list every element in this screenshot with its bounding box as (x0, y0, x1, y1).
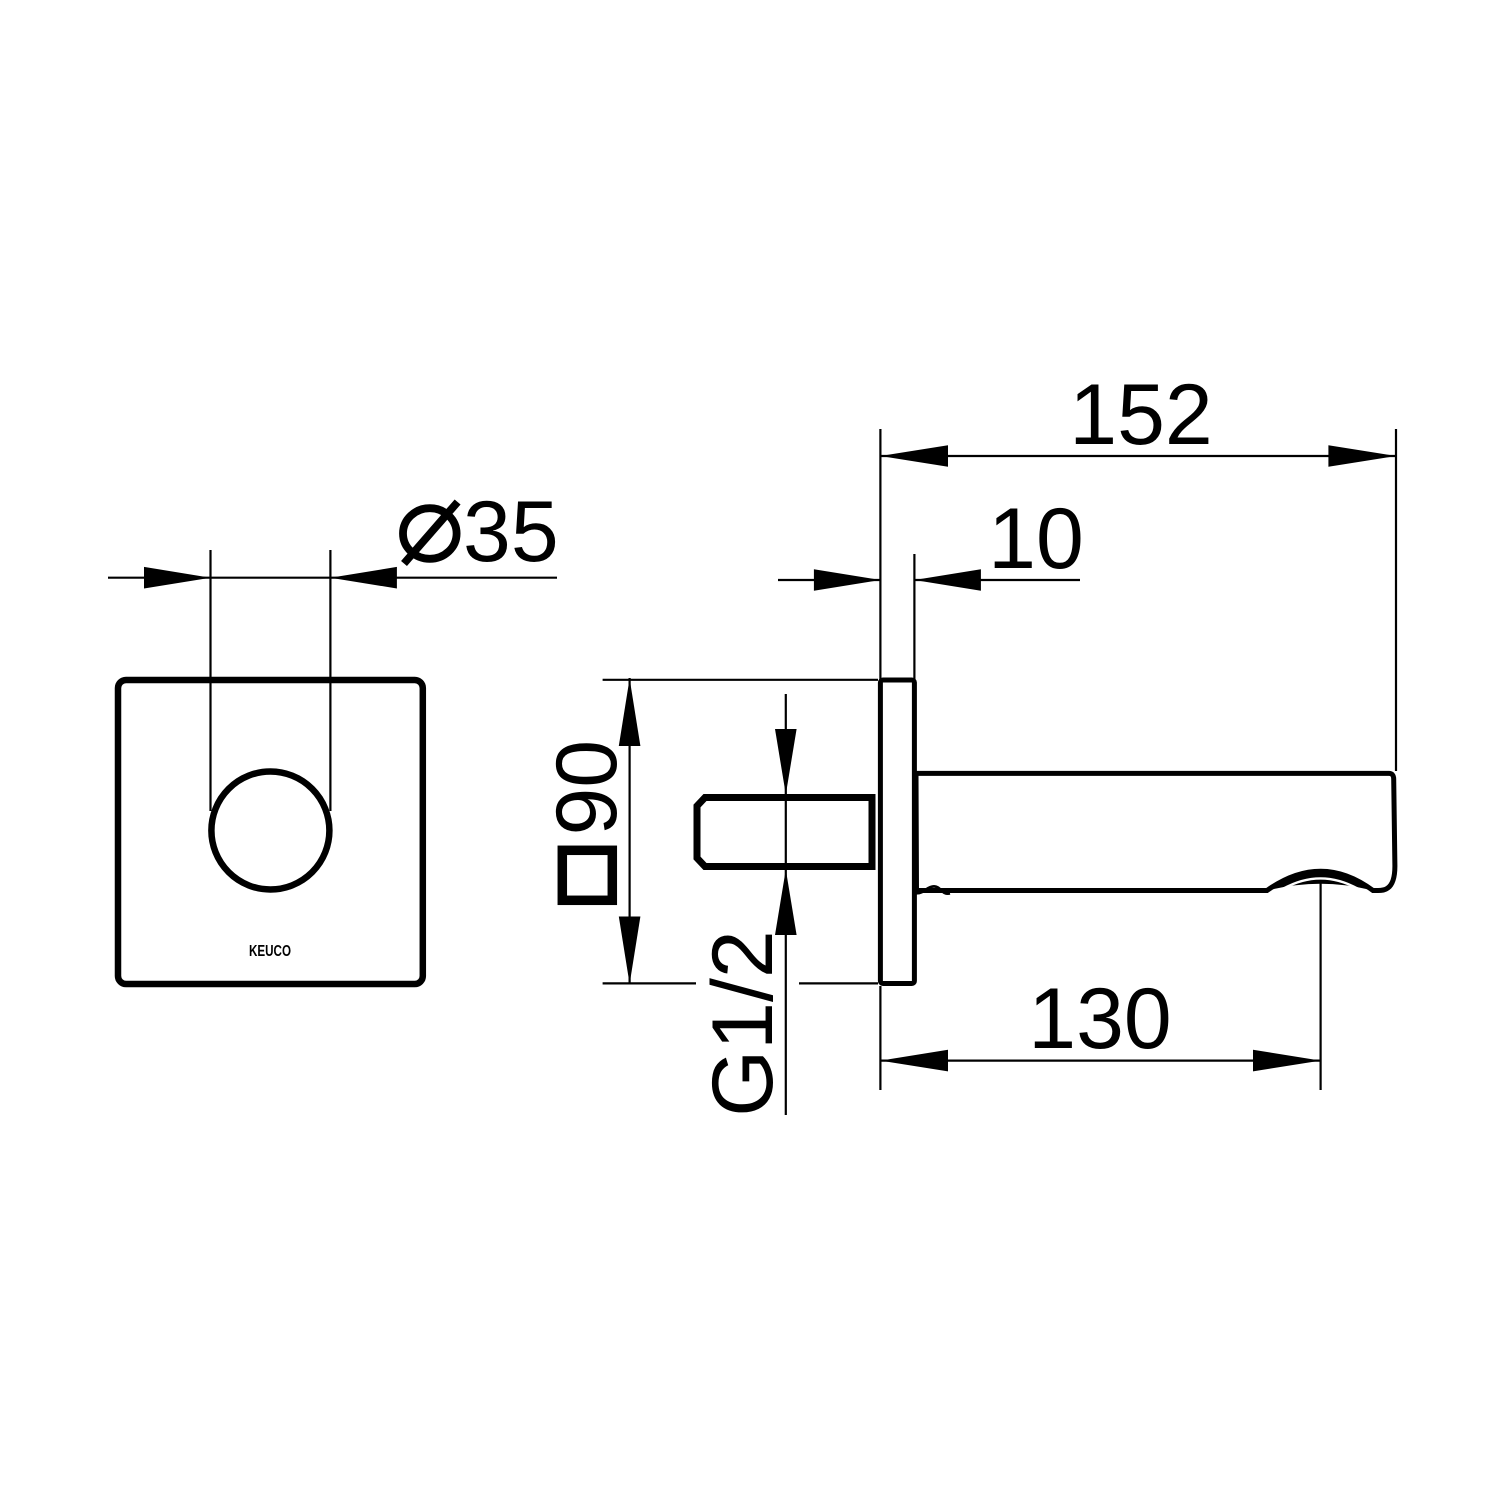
dimension line 10 left segment (778, 579, 880, 581)
aerator outlet notch (thick band) (1267, 871, 1373, 890)
arrow 10 right (outside, pointing left) (914, 569, 981, 591)
dimension line Ø35 (108, 577, 557, 579)
arrow 90 bottom (pointing down) (619, 917, 641, 985)
extension line wall face (x=880) above plate (879, 429, 881, 680)
extension line right of Ø35 (329, 550, 331, 811)
extension line plate front (x=914) above plate (913, 554, 915, 680)
arrow 130 right (pointing right) (1253, 1050, 1321, 1072)
svg-text:35: 35 (463, 484, 559, 580)
square symbol of □90 label (562, 850, 612, 900)
knob circle (211, 772, 329, 890)
dimension line 90 (vertical) (628, 678, 630, 983)
arrow 130 left (pointing left) (880, 1050, 948, 1072)
arrow 90 top (pointing up) (619, 679, 641, 747)
arrow 152 left (pointing left) (880, 445, 948, 467)
svg-text:130: 130 (1028, 971, 1172, 1067)
svg-text:10: 10 (988, 491, 1084, 587)
extension line spout tip (x=1396) (1395, 429, 1397, 771)
arrow 152 right (pointing right) (1328, 445, 1396, 467)
extension line left of Ø35 (209, 550, 211, 811)
arrow G1/2 bottom (pointing up at nipple) (775, 870, 797, 936)
dimension line 10 right segment (914, 579, 1080, 581)
extension line bottom of plate (y=983) left part (603, 982, 696, 984)
aerator white sliver (1283, 878, 1358, 888)
arrow G1/2 top (pointing down at nipple) (775, 729, 797, 795)
spout underside transition wave near wall (917, 886, 951, 893)
svg-text:90: 90 (539, 740, 635, 836)
extension line below plate (x=880) (879, 986, 881, 1090)
arrow 10 left (outside, pointing right) (814, 569, 881, 591)
spout body (916, 773, 1395, 890)
dimension line 152 (880, 455, 1396, 457)
arrow Ø35 right (pointing left) (330, 567, 397, 589)
G1/2 pointer line (vertical) (785, 694, 787, 1115)
arrow Ø35 left (pointing right) (144, 567, 211, 589)
label Ø35 : diameter symbol drawn manually (403, 484, 559, 580)
extension line aerator (x=1320) (1319, 880, 1321, 1090)
svg-text:152: 152 (1069, 367, 1213, 463)
dimension line 130 (880, 1059, 1320, 1061)
svg-text:KEUCO: KEUCO (249, 943, 291, 960)
extension line top of plate (y=680) (603, 679, 878, 681)
threaded nipple G1/2 (697, 798, 872, 867)
wall plate (side view) (880, 680, 914, 984)
front plate square (118, 680, 423, 984)
extension line bottom of plate (y=983) right part (799, 982, 878, 984)
svg-text:G1/2: G1/2 (695, 930, 791, 1116)
